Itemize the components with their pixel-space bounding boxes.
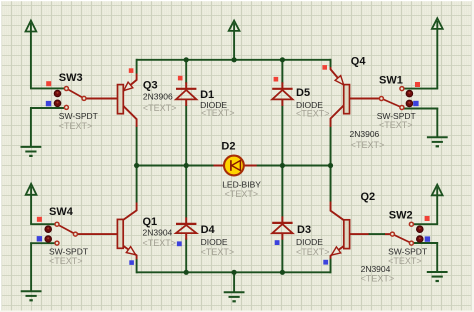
value DIODE (D5) — [296, 100, 323, 110]
wire bottom rail — [137, 271, 331, 273]
transistor Q3 (PNP 2N3906) — [86, 74, 136, 127]
wire power to SW4 top throw — [30, 223, 55, 225]
marker SW3 — [46, 81, 51, 86]
label SW3 — [59, 72, 83, 84]
marker Q2 pin (blue) — [323, 260, 328, 265]
svg-text:D3: D3 — [297, 224, 311, 236]
wire SW4 bottom throw to ground — [30, 242, 55, 244]
wire D4 to bottom rail — [185, 239, 187, 273]
svg-text:<TEXT>: <TEXT> — [143, 238, 177, 248]
svg-text:<TEXT>: <TEXT> — [143, 103, 177, 113]
property <TEXT> (D1) — [201, 108, 235, 118]
ground below SW3 — [21, 107, 42, 156]
junction middle rail right — [328, 163, 333, 168]
switch SW4 (SW-SPDT) — [45, 222, 78, 245]
marker Q3 — [129, 68, 134, 73]
wire Q1 emitter to bottom rail — [136, 259, 138, 273]
wire middle rail to D3 — [281, 166, 283, 217]
svg-text:DIODE: DIODE — [201, 237, 228, 247]
LED D2 (LED-BIBY) — [214, 156, 257, 176]
marker SW3 (blue) — [46, 101, 51, 106]
junction bottom rail / ground — [232, 270, 237, 275]
property <TEXT> (SW2) — [388, 256, 422, 266]
property <TEXT> (Q3) — [143, 103, 177, 113]
ground below SW2 — [427, 242, 448, 281]
property <TEXT> (Q1) — [143, 238, 177, 248]
wire SW3 bottom throw to ground — [30, 107, 64, 109]
power symbol +V top-right — [432, 18, 443, 88]
wire SW2 top throw to power — [414, 223, 439, 225]
svg-text:D2: D2 — [221, 140, 235, 152]
svg-text:SW2: SW2 — [389, 210, 413, 222]
property <TEXT> (SW1) — [379, 120, 413, 130]
ground below SW1 — [427, 108, 448, 147]
marker SW4 (blue) — [37, 236, 42, 241]
label Q1 — [143, 216, 158, 228]
wire Q2 emitter to bottom rail — [330, 259, 332, 274]
svg-text:<TEXT>: <TEXT> — [296, 109, 330, 119]
svg-text:<TEXT>: <TEXT> — [379, 120, 413, 130]
label SW2 — [389, 210, 413, 222]
wire D5 to middle rail — [281, 106, 283, 166]
svg-text:DIODE: DIODE — [296, 237, 323, 247]
transistor Q2 (NPN 2N3904) — [331, 202, 391, 259]
value DIODE (D4) — [201, 237, 228, 247]
svg-text:<TEXT>: <TEXT> — [201, 108, 235, 118]
marker D4 pin (blue) — [177, 241, 182, 246]
svg-text:D5: D5 — [296, 87, 310, 99]
wire middle rail to D4 — [185, 166, 187, 218]
junction middle rail left — [134, 163, 139, 168]
power symbol +V for SW4 — [26, 184, 37, 224]
svg-text:2N3906: 2N3906 — [143, 91, 173, 101]
wire D3 to bottom rail — [281, 240, 283, 273]
property <TEXT> (D4) — [201, 247, 235, 257]
power symbol +V for SW2 — [432, 185, 443, 225]
label D4 — [201, 224, 216, 236]
marker SW4 — [37, 217, 42, 222]
svg-text:SW1: SW1 — [379, 75, 403, 87]
marker D5 — [274, 77, 279, 82]
svg-text:SW3: SW3 — [59, 72, 83, 84]
value 2N3904 (Q2) — [361, 264, 391, 274]
wire middle bridge rail (motor node) — [137, 165, 331, 167]
transistor Q4 (PNP 2N3906) — [331, 67, 380, 127]
label SW4 — [49, 206, 74, 218]
svg-text:SW-SPDT: SW-SPDT — [49, 247, 88, 257]
label Q3 — [143, 79, 158, 91]
wire top supply rail — [137, 59, 331, 61]
marker SW2 (blue) — [425, 236, 430, 241]
value DIODE (D3) — [296, 237, 323, 247]
junction top rail / D5 — [280, 57, 285, 62]
svg-text:Q3: Q3 — [143, 79, 158, 91]
property <TEXT> (D2) — [225, 189, 259, 199]
property <TEXT> (Q4) — [351, 140, 385, 150]
marker SW2 — [425, 216, 430, 221]
value SW-SPDT (SW1) — [377, 111, 416, 121]
junction middle rail / D5-D3 — [280, 163, 285, 168]
wire Q4 emitter to top rail — [330, 59, 332, 67]
value 2N3906 (Q4) — [350, 129, 380, 139]
wire SW1 bottom throw to ground — [404, 108, 438, 110]
junction top rail / +V — [232, 57, 237, 62]
wire SW2 bottom throw to ground — [414, 242, 439, 244]
svg-text:<TEXT>: <TEXT> — [361, 274, 395, 284]
wire Q3 collector to middle rail — [136, 127, 138, 166]
label D3 — [297, 224, 311, 236]
transistor Q1 (NPN 2N3904) — [78, 203, 137, 260]
property <TEXT> (D5) — [296, 109, 330, 119]
svg-text:<TEXT>: <TEXT> — [49, 256, 83, 266]
value DIODE (D1) — [200, 100, 227, 110]
value SW-SPDT (SW2) — [388, 247, 427, 257]
label Q4 — [351, 56, 367, 68]
svg-text:<TEXT>: <TEXT> — [225, 189, 259, 199]
property <TEXT> (SW4) — [49, 256, 83, 266]
svg-text:<TEXT>: <TEXT> — [351, 140, 385, 150]
label D2 — [221, 140, 235, 152]
wire Q2 base to SW2 pole — [369, 233, 385, 235]
marker Q4 — [322, 65, 327, 70]
diode D5 — [272, 82, 292, 106]
marker SW1 — [415, 82, 420, 87]
junction bottom rail / D3 — [280, 270, 285, 275]
svg-text:SW4: SW4 — [49, 206, 74, 218]
svg-text:SW-SPDT: SW-SPDT — [59, 111, 98, 121]
switch SW1 (SW-SPDT) — [379, 87, 412, 110]
ground center bottom — [224, 272, 245, 301]
junction bottom rail / D4 — [184, 270, 189, 275]
marker SW1 (blue) — [413, 101, 418, 106]
value SW-SPDT (SW3) — [59, 111, 98, 121]
value SW-SPDT (SW4) — [49, 247, 88, 257]
wire middle rail to Q2 collector — [330, 166, 332, 202]
junction top rail / D1 — [184, 57, 189, 62]
ground below SW4 — [21, 242, 42, 300]
switch SW3 (SW-SPDT) — [54, 87, 118, 110]
value 2N3906 (Q3) — [143, 91, 173, 101]
wire Q3 emitter to top rail — [136, 59, 138, 74]
svg-text:Q2: Q2 — [361, 191, 376, 203]
label SW1 — [379, 75, 403, 87]
svg-text:2N3906: 2N3906 — [350, 129, 380, 139]
diode D1 — [176, 82, 196, 106]
wire middle rail to Q1 collector — [136, 166, 138, 203]
power symbol +V top-left — [26, 21, 37, 89]
svg-text:<TEXT>: <TEXT> — [388, 256, 422, 266]
marker Q1 pin (blue) — [129, 260, 134, 265]
wire power to SW1 top throw — [404, 88, 438, 90]
wire power to SW3 top throw — [30, 87, 64, 89]
label Q2 — [361, 191, 376, 203]
property <TEXT> (Q2) — [361, 274, 395, 284]
power symbol +V top-center — [229, 21, 240, 60]
svg-text:Q4: Q4 — [351, 56, 367, 68]
svg-text:Q1: Q1 — [143, 216, 158, 228]
value LED-BIBY (D2) — [222, 180, 261, 190]
junction middle rail / D1-D4 — [184, 163, 189, 168]
wire D1 anode column upper — [185, 60, 187, 84]
svg-text:<TEXT>: <TEXT> — [201, 247, 235, 257]
marker D3 pin (blue) — [275, 240, 280, 245]
svg-text:2N3904: 2N3904 — [143, 228, 173, 238]
wire D5 column upper — [281, 60, 283, 84]
property <TEXT> (SW3) — [59, 121, 93, 131]
diode D3 — [272, 216, 292, 239]
property <TEXT> (D3) — [296, 247, 330, 257]
wire D1 to middle rail — [185, 106, 187, 166]
switch SW2 (SW-SPDT) — [390, 222, 423, 245]
label D5 — [296, 87, 310, 99]
wire Q4 collector to middle rail — [330, 127, 332, 166]
label D1 — [200, 89, 214, 101]
svg-text:<TEXT>: <TEXT> — [59, 121, 93, 131]
svg-text:D4: D4 — [201, 224, 216, 236]
value 2N3904 (Q1) — [143, 228, 173, 238]
svg-text:<TEXT>: <TEXT> — [296, 247, 330, 257]
diode D4 — [176, 217, 196, 239]
marker D1 — [178, 76, 183, 81]
